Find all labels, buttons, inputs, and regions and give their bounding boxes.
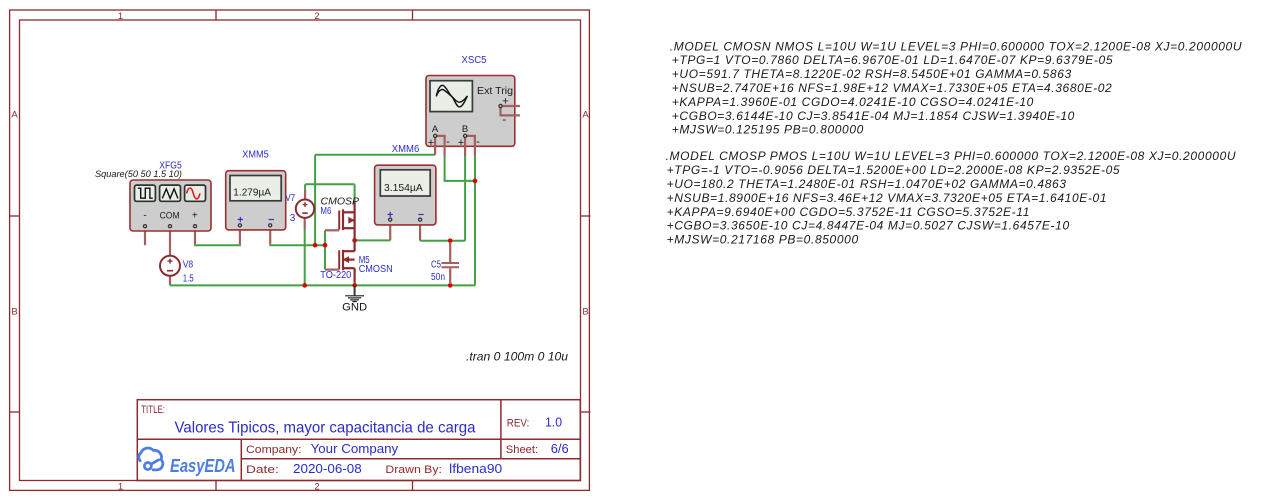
svg-text:V8: V8 (183, 260, 194, 271)
svg-text:2020-06-08: 2020-06-08 (293, 461, 362, 476)
pmos model text block (666, 149, 1237, 246)
V7 plus mark (303, 202, 308, 207)
svg-text:V7: V7 (285, 193, 295, 204)
svg-text:+KAPPA=1.3960E-01 CGDO=4.0241E: +KAPPA=1.3960E-01 CGDO=4.0241E-10 CGSO=4… (672, 95, 1034, 109)
svg-text:REV:: REV: (507, 418, 530, 430)
capacitor C5 (431, 242, 459, 284)
M5 body contact + arrow (343, 259, 355, 261)
svg-text:Square(50 50 1.5 10): Square(50 50 1.5 10) (95, 169, 182, 180)
wire XSC5 A- elbow down and right (445, 156, 475, 181)
wire M5 source tiny (354, 282, 356, 285)
XMM5 pin stub plus (239, 227, 241, 244)
V7 minus mark (302, 212, 307, 214)
M6 drain contact (343, 227, 355, 229)
M6 gate lead (325, 229, 339, 231)
svg-text:Date:: Date: (246, 464, 279, 476)
svg-text:A: A (11, 110, 18, 121)
svg-text:1.0: 1.0 (545, 416, 562, 430)
svg-text:B: B (582, 307, 588, 318)
svg-text:.tran 0 100m 0 10u: .tran 0 100m 0 10u (466, 351, 569, 363)
XSC5 A+ stub (434, 137, 436, 155)
wire XSC5 A+ horizontal (315, 154, 435, 156)
V7 circle (296, 200, 314, 218)
V8 circle (160, 256, 180, 276)
svg-text:+: + (458, 137, 464, 149)
junction dot A-/B- node (473, 179, 478, 184)
svg-text:Valores Tipicos, mayor capacit: Valores Tipicos, mayor capacitancia de c… (175, 419, 476, 436)
wire M6 source drop (354, 184, 356, 202)
ground symbol (342, 285, 367, 313)
XSC5 A terminal (434, 134, 437, 137)
junction dot M6 drain node (352, 238, 357, 243)
svg-text:GND: GND (342, 302, 367, 314)
XFG5 pin stub COM (169, 228, 171, 256)
XFG5 triangle wave icon (160, 185, 181, 201)
V7 pin stub bottom (304, 218, 306, 229)
svg-text:+CGBO=3.6144E-10 CJ=3.8541E-04: +CGBO=3.6144E-10 CJ=3.8541E-04 MJ=1.1854… (672, 109, 1075, 123)
wire XSC5 B+ vertical (464, 156, 466, 241)
V7 pin stub top (304, 190, 306, 200)
company/date row divider (241, 458, 580, 460)
svg-text:-: - (476, 136, 480, 148)
wire XSC5 A+ vertical down to input net (314, 155, 316, 245)
logo cell divider (240, 439, 242, 480)
svg-text:+: + (192, 211, 198, 222)
M6 gate bar (338, 211, 340, 230)
V8 pin stub bottom (169, 276, 171, 285)
M5 source vertical (354, 268, 356, 282)
svg-text:+: + (502, 95, 508, 107)
svg-text:1.5: 1.5 (183, 274, 194, 285)
nmos M5 (320, 240, 392, 282)
XSC5 B terminal (464, 134, 467, 137)
XMM5 pin stub minus (269, 227, 271, 244)
M5 gate lead (325, 269, 339, 271)
rev/sheet cell divider (500, 400, 502, 459)
svg-text:3: 3 (290, 213, 296, 224)
M5 gate bar (338, 250, 340, 269)
svg-text:Company:: Company: (246, 444, 302, 456)
XFG5 pin stub plus (194, 228, 196, 244)
svg-text:TITLE:: TITLE: (141, 404, 165, 416)
svg-text:A: A (582, 110, 589, 121)
V8 minus mark (167, 270, 173, 272)
wire V7+ horizontal to M6 source (305, 183, 355, 185)
M6 channel bar (342, 209, 344, 230)
XSC5 body (426, 76, 515, 147)
XMM6 terminal circles (389, 218, 392, 221)
wire C5 bottom tiny (449, 283, 451, 285)
svg-text:+TPG=1 VTO=0.7860 DELTA=6.9670: +TPG=1 VTO=0.7860 DELTA=6.9670E-01 LD=1.… (672, 53, 1113, 67)
junction dot input net / A+ (313, 243, 318, 248)
function generator XFG5 (95, 160, 211, 256)
junction dot gnd/V7- (302, 283, 307, 288)
svg-text:+UO=180.2 THETA=1.2480E-01 RSH: +UO=180.2 THETA=1.2480E-01 RSH=1.0470E+0… (667, 177, 1067, 191)
wire XSC5 B- vertical to gnd (474, 156, 476, 286)
svg-text:-: - (143, 211, 146, 222)
svg-text:XSC5: XSC5 (462, 55, 487, 66)
XSC5 B- elbow (466, 136, 475, 156)
svg-text:+NSUB=1.8900E+16 NFS=3.46E+12: +NSUB=1.8900E+16 NFS=3.46E+12 VMAX=3.732… (667, 191, 1108, 205)
wire gates vertical M6-M5 (324, 230, 326, 269)
wire V7+ up (304, 184, 306, 191)
XMM6 pin stub plus (389, 221, 391, 240)
svg-text:1: 1 (118, 11, 123, 22)
oscilloscope XSC5 (426, 55, 520, 156)
svg-text:+NSUB=2.7470E+16 NFS=1.98E+12: +NSUB=2.7470E+16 NFS=1.98E+12 VMAX=1.733… (672, 81, 1113, 95)
M5 source contact (343, 267, 355, 269)
XMM5 screen (230, 176, 281, 201)
svg-text:.MODEL CMOSP PMOS L=10U W=1U L: .MODEL CMOSP PMOS L=10U W=1U LEVEL=3 PHI… (666, 149, 1237, 163)
svg-text:M6: M6 (320, 206, 331, 217)
M5 drain vertical (354, 240, 356, 251)
XFG5 pin stub minus (144, 228, 146, 245)
junction dot input net / gates (323, 243, 328, 248)
XMM5 body (226, 171, 286, 230)
XFG5 terminal circles (143, 225, 146, 228)
svg-text:2: 2 (314, 481, 319, 492)
svg-text:Sheet:: Sheet: (506, 444, 538, 456)
V8 plus mark (168, 259, 173, 264)
wire M6 drain to XMM6+ (355, 239, 391, 241)
svg-text:TO-220: TO-220 (320, 270, 351, 281)
svg-text:XMM6: XMM6 (392, 144, 420, 155)
svg-text:.MODEL CMOSN NMOS L=10U W=1U L: .MODEL CMOSN NMOS L=10U W=1U LEVEL=3 PHI… (670, 39, 1242, 53)
svg-text:+MJSW=0.125195 PB=0.800000: +MJSW=0.125195 PB=0.800000 (672, 123, 864, 137)
XFG5 body (130, 180, 211, 231)
svg-text:-: - (502, 112, 506, 126)
M6 body contact + arrow (349, 219, 355, 221)
XSC5 A- elbow (436, 136, 445, 156)
XMM6 screen (380, 170, 430, 196)
svg-text:CMOSN: CMOSN (359, 264, 393, 275)
XSC5 ext trig stub plus (502, 105, 520, 107)
junction dot gnd/C5 bottom (448, 283, 453, 288)
XSC5 ext trig circle (499, 104, 502, 107)
svg-text:XMM5: XMM5 (242, 150, 269, 161)
XSC5 ext trig stub minus (501, 107, 520, 115)
svg-text:+MJSW=0.217168 PB=0.850000: +MJSW=0.217168 PB=0.850000 (667, 233, 859, 247)
wire V7- down to gnd net (304, 228, 306, 285)
svg-text:1.279µA: 1.279µA (233, 186, 271, 198)
svg-text:6/6: 6/6 (551, 441, 569, 456)
svg-text:C5: C5 (431, 259, 441, 270)
wire C5 top tiny (449, 241, 451, 244)
XMM6 pin stub minus (419, 221, 421, 241)
wire gnd net horizontal (170, 284, 475, 286)
junction dot C5 top node (448, 238, 453, 243)
multimeter XMM6 (375, 144, 436, 241)
voltage source V8 (160, 256, 194, 285)
svg-text:B: B (462, 124, 468, 135)
EasyEDA logo cloud (139, 448, 163, 470)
M5 channel bar (342, 250, 344, 270)
svg-text:+CGBO=3.3650E-10 CJ=4.8447E-04: +CGBO=3.3650E-10 CJ=4.8447E-04 MJ=0.5027… (667, 219, 1070, 233)
C5 top lead (449, 242, 451, 262)
svg-text:+: + (428, 137, 434, 149)
junction dot gnd/M5 source (352, 283, 357, 288)
svg-text:1: 1 (118, 481, 123, 492)
svg-text:+KAPPA=9.6940E+00 CGDO=5.3752E: +KAPPA=9.6940E+00 CGDO=5.3752E-11 CGSO=5… (667, 205, 1030, 219)
title row divider (137, 438, 580, 440)
wire XMM6- to B+ elbow (420, 240, 465, 242)
XSC5 screen waves (436, 85, 467, 107)
svg-text:-: - (446, 136, 450, 148)
wire input net segment XMM5- to gates (270, 244, 325, 245)
C5 plates (441, 262, 459, 264)
svg-text:Drawn By:: Drawn By: (385, 464, 442, 476)
M6 D/S vertical (354, 202, 356, 241)
svg-text:COM: COM (160, 211, 180, 222)
C5 bottom lead (449, 268, 451, 284)
XSC5 screen (430, 81, 472, 112)
pmos M6 (320, 195, 359, 240)
svg-text:Your Company: Your Company (311, 441, 399, 456)
svg-text:lfbena90: lfbena90 (449, 461, 502, 476)
nmos model text block (670, 39, 1242, 136)
XFG5 sine wave icon (185, 185, 206, 201)
M6 source contact (343, 211, 355, 213)
multimeter XMM5 (226, 150, 286, 245)
M5 drain contact (343, 250, 355, 252)
svg-text:+UO=591.7 THETA=8.1220E-02 RSH: +UO=591.7 THETA=8.1220E-02 RSH=8.5450E+0… (672, 67, 1072, 81)
svg-text:3.154µA: 3.154µA (384, 182, 423, 194)
svg-text:B: B (11, 307, 17, 318)
svg-text:+TPG=-1 VTO=-0.9056 DELTA=1.52: +TPG=-1 VTO=-0.9056 DELTA=1.5200E+00 LD=… (667, 163, 1121, 177)
XMM5 terminal circles (238, 224, 241, 227)
svg-text:50n: 50n (431, 272, 445, 283)
svg-text:A: A (432, 124, 439, 135)
XSC5 B+ stub (464, 137, 466, 156)
voltage source V7 (285, 190, 314, 229)
svg-text:2: 2 (314, 11, 319, 22)
XFG5 square wave icon (135, 185, 156, 201)
XMM6 body (375, 165, 436, 225)
wire V8- corner (169, 284, 171, 285)
wire input net segment XFG5+ to XMM5+ (195, 244, 240, 245)
svg-text:EasyEDA: EasyEDA (170, 455, 236, 476)
title block outline (137, 400, 580, 481)
